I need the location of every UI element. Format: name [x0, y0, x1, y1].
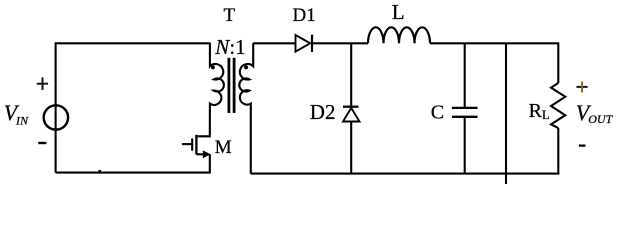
svg-text:L: L — [392, 0, 405, 24]
svg-text:D2: D2 — [310, 100, 336, 124]
wire bottom rail primary — [56, 172, 211, 174]
diode D2 cathode bar — [343, 106, 359, 108]
wire capacitor branch upper — [464, 43, 466, 107]
label - (VOUT polarity) — [579, 145, 586, 147]
wire bottom rail secondary — [251, 173, 560, 175]
transformer T secondary winding — [239, 43, 253, 173]
wire D2 branch upper — [350, 43, 352, 106]
wire inductor to output node — [430, 42, 558, 44]
transistor M channel bar — [195, 135, 197, 155]
svg-text:C: C — [431, 102, 444, 124]
transistor M (MOSFET) drain lead — [196, 135, 209, 137]
label + (VIN polarity) — [37, 77, 48, 90]
transformer core lines — [229, 58, 234, 113]
wire RL branch lower — [557, 128, 559, 174]
svg-text:N:1: N:1 — [214, 35, 245, 59]
wire output stub vertical through bottom rail — [505, 43, 507, 184]
transformer T primary winding — [210, 43, 224, 135]
transistor M gate lead — [182, 143, 192, 145]
label - (VIN polarity) — [38, 142, 46, 144]
svg-text:T: T — [224, 5, 236, 26]
source VIN circle — [44, 105, 68, 129]
wire RL branch upper — [557, 42, 559, 83]
wire secondary top rail (transformer to D1) — [253, 42, 295, 44]
wire D2 branch lower — [350, 122, 352, 174]
wire D1 to inductor L — [312, 42, 368, 44]
svg-text:D1: D1 — [293, 5, 316, 26]
diode D1 triangle — [296, 35, 311, 52]
label + (VOUT polarity) — [577, 82, 588, 93]
transformer phasing dot secondary — [244, 65, 248, 69]
diode D2 triangle — [343, 108, 360, 122]
transformer phasing dot primary — [211, 65, 215, 69]
wire top rail primary (VIN+ to transformer) — [56, 42, 211, 44]
resistor RL zigzag — [551, 83, 565, 128]
wire left vertical through source VIN — [55, 42, 57, 172]
wire capacitor branch lower — [464, 117, 466, 174]
inductor L — [368, 27, 430, 43]
transistor M gate bar — [191, 138, 193, 150]
transistor M source lead with arrow — [196, 153, 204, 155]
capacitor C plates — [452, 108, 478, 117]
diode D1 cathode bar — [311, 35, 313, 52]
junction nub on bottom rail — [98, 170, 101, 173]
svg-text:M: M — [215, 137, 232, 158]
